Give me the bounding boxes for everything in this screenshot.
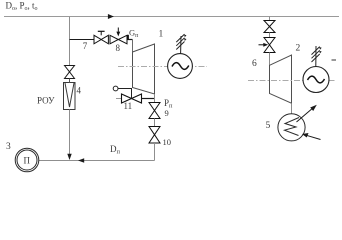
svg-text:8: 8 xyxy=(116,43,121,53)
label Gп xyxy=(129,28,139,40)
svg-text:1: 1 xyxy=(159,30,164,40)
valve 9 xyxy=(149,103,160,119)
actuator of valve 11 xyxy=(113,86,131,98)
wire: valve 11 to exhaust line xyxy=(142,98,155,100)
grid connection symbol gen2 xyxy=(312,46,322,67)
turbine 2 xyxy=(270,55,292,103)
label 5 xyxy=(266,121,271,131)
wire: ROU outlet down xyxy=(69,110,71,159)
wire: stub left of valve 11 xyxy=(116,98,122,100)
svg-text:РОУ: РОУ xyxy=(37,96,55,106)
svg-text:10: 10 xyxy=(163,137,172,147)
label ROU xyxy=(37,96,55,106)
label 9 xyxy=(165,108,169,118)
valve 11 xyxy=(122,94,142,103)
label 4 xyxy=(77,86,82,96)
heater circle 5 xyxy=(278,114,305,141)
outgoing water arrow from heater xyxy=(297,105,317,122)
wire: valve 6 to turbine 2 xyxy=(269,53,271,66)
valve 7 xyxy=(94,31,108,44)
label Dp xyxy=(110,144,121,156)
incoming water arrow to heater xyxy=(302,133,321,140)
wire: valve 10 down to Dp line xyxy=(154,143,156,161)
svg-text:11: 11 xyxy=(124,101,133,111)
svg-text:Dп: Dп xyxy=(110,144,121,156)
valve 6 xyxy=(264,38,275,53)
label 8 xyxy=(116,43,121,53)
grid connection symbol gen1 xyxy=(176,34,186,54)
flow arrow left on Dp line xyxy=(78,158,84,162)
svg-text:4: 4 xyxy=(77,86,82,96)
wire: branch to valves 7 and 8 xyxy=(70,39,95,41)
ROU attemperator box 4 xyxy=(64,79,76,110)
wire: valve 8 to turbine inlet xyxy=(127,35,133,52)
label 7 xyxy=(83,41,88,51)
wire: main steam header xyxy=(4,16,339,18)
generator G2 xyxy=(303,67,329,93)
turbine 1 xyxy=(133,44,155,94)
svg-text:Gп: Gп xyxy=(129,28,139,40)
wire: between right valves xyxy=(269,33,271,38)
valve 10 xyxy=(149,127,160,144)
svg-text:2: 2 xyxy=(296,44,301,54)
wire: turbine 2 to heater 5 xyxy=(291,103,293,114)
label 11 xyxy=(124,101,133,111)
label 6 xyxy=(252,59,257,69)
label 2 xyxy=(296,44,301,54)
minus dash right of gen2 xyxy=(332,59,337,61)
svg-text:Do, Po, to: Do, Po, to xyxy=(6,1,38,12)
upper right valve xyxy=(264,21,275,33)
svg-text:7: 7 xyxy=(83,41,88,51)
label Pп xyxy=(164,98,173,110)
flow arrow on header xyxy=(108,14,114,19)
label D0 P0 t0 xyxy=(6,1,38,12)
wire: turbine 1 exhaust xyxy=(154,94,156,103)
svg-text:9: 9 xyxy=(165,108,169,118)
wire: Dp return line xyxy=(39,160,155,162)
flow arrow down at junction xyxy=(67,154,71,160)
label 3 xyxy=(6,142,11,152)
arrow into valve 8 xyxy=(116,28,120,37)
wire: drop from header right section xyxy=(269,17,271,21)
wire: drop from header to ROU valve xyxy=(69,17,71,66)
label 1 xyxy=(159,30,164,40)
svg-text:6: 6 xyxy=(252,59,257,69)
arrow into valve 6 xyxy=(259,43,269,47)
wire: between valves 9 and 10 xyxy=(154,119,156,127)
label 10 xyxy=(163,137,172,147)
generator G1 xyxy=(168,54,193,79)
consumer circle 3 (П) xyxy=(15,148,39,172)
shaft centerline 2 xyxy=(248,80,335,82)
shaft centerline 1 xyxy=(118,66,207,68)
valve above ROU xyxy=(65,66,75,79)
svg-text:П: П xyxy=(24,156,31,166)
valve 8 xyxy=(110,35,127,44)
svg-text:5: 5 xyxy=(266,121,271,131)
svg-text:3: 3 xyxy=(6,142,11,152)
